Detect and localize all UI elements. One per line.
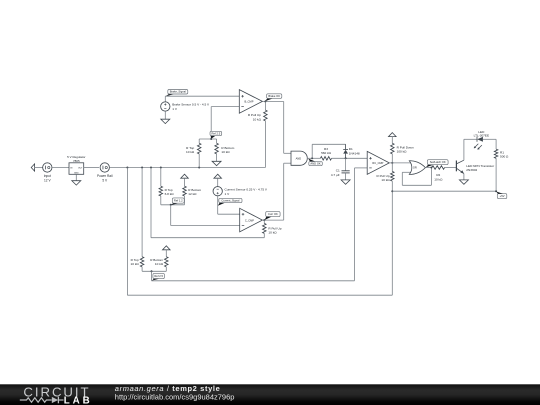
wire [164, 96, 166, 102]
wire [262, 101, 283, 103]
svg-text:6.8 kΩ: 6.8 kΩ [165, 192, 175, 196]
svg-text:10 kΩ: 10 kΩ [221, 150, 230, 154]
wire [35, 167, 43, 169]
svg-text:+5V: +5V [500, 194, 505, 198]
svg-text:LTL-307EE: LTL-307EE [474, 134, 489, 138]
wire [464, 138, 477, 140]
wire [161, 204, 185, 206]
ammeter Input 12 V [43, 163, 52, 172]
wire [165, 267, 167, 271]
svg-text:armaan.gera / temp2 style: armaan.gera / temp2 style [115, 384, 221, 393]
wire [141, 168, 143, 257]
ground [212, 161, 221, 165]
svg-text:C_CMP: C_CMP [245, 218, 254, 222]
resistor R Bottom 12k [183, 186, 187, 196]
svg-text:R Bottom: R Bottom [221, 146, 234, 150]
wire [150, 168, 152, 238]
label pointer [152, 279, 159, 281]
wire [171, 225, 240, 227]
node label Brake OK [267, 94, 282, 99]
ground [459, 180, 468, 184]
svg-text:Ref 2.5: Ref 2.5 [154, 274, 163, 278]
wire [283, 163, 285, 220]
junction [126, 167, 128, 169]
diode D1 [345, 144, 347, 149]
svg-text:12 V: 12 V [44, 178, 51, 182]
wire +5V rail to R1 [392, 190, 496, 192]
node label Brake_Signal [168, 90, 188, 95]
label pointer [496, 192, 503, 194]
svg-text:Brake_Signal: Brake_Signal [170, 90, 186, 94]
svg-text:100 kΩ: 100 kΩ [397, 150, 408, 154]
op-amp RC_CMP [367, 151, 389, 174]
svg-text:R Pull Down: R Pull Down [397, 146, 414, 150]
wire [126, 168, 128, 296]
svg-text:10 kΩ: 10 kΩ [434, 177, 443, 181]
wire [345, 173, 347, 180]
wire [84, 167, 99, 169]
resistor R Top lower [140, 257, 144, 267]
wire [401, 172, 403, 185]
node label Set/Latch OK [427, 160, 448, 165]
svg-text:Brake Sensor 0.5 V - 4.5 V: Brake Sensor 0.5 V - 4.5 V [172, 103, 210, 107]
svg-text:500 Ω: 500 Ω [500, 155, 509, 159]
resistor R Pull Up rc [391, 171, 395, 181]
wire [52, 167, 69, 169]
wire [355, 167, 368, 169]
ground [341, 180, 350, 184]
svg-text:R Pull Up: R Pull Up [377, 174, 390, 178]
svg-text:AND OK: AND OK [310, 162, 321, 166]
junction [210, 138, 212, 140]
wire [151, 271, 153, 281]
wire [184, 178, 186, 186]
svg-text:R Bottom: R Bottom [188, 188, 201, 192]
wire [218, 213, 240, 215]
wire [495, 158, 497, 191]
wire [199, 138, 216, 140]
svg-text:7805: 7805 [73, 159, 80, 163]
node label +5V [497, 194, 507, 199]
wire [483, 138, 496, 140]
junction [150, 167, 152, 169]
svg-text:R1: R1 [500, 150, 504, 154]
svg-text:Set/Latch OK: Set/Latch OK [430, 160, 446, 164]
wire [165, 250, 167, 257]
op-amp C_CMP [240, 208, 263, 232]
logo resistor squiggle and diode [20, 398, 52, 402]
wire node Ref 2.5 run [152, 280, 355, 282]
ground [72, 181, 81, 185]
wire [170, 205, 172, 226]
svg-text:1N4148: 1N4148 [349, 152, 360, 156]
transistor Q1 2N3904 [455, 161, 457, 172]
wire [216, 154, 218, 161]
svg-text:http://circuitlab.com/cs9g9u84: http://circuitlab.com/cs9g9u84z796p [115, 393, 235, 402]
ammeter Power Rail 5 V [100, 163, 109, 172]
svg-text:560 kΩ: 560 kΩ [321, 151, 332, 155]
node label Ref 1.2 [172, 198, 184, 203]
op-amp B_CMP [239, 90, 262, 114]
junction [263, 219, 265, 221]
resistor R Pull Down [391, 143, 395, 154]
svg-text:R2: R2 [436, 173, 440, 177]
wire [284, 162, 291, 164]
wire [184, 196, 186, 205]
node label Ref 2.5 [210, 131, 222, 135]
resistor R Bottom lower [165, 257, 169, 267]
svg-text:D1: D1 [349, 147, 353, 151]
resistor R Bottom upper [215, 143, 219, 154]
label pointer [308, 159, 315, 162]
junction [160, 167, 162, 169]
wire [198, 139, 200, 143]
wire [391, 154, 393, 163]
power flag +5V [214, 174, 222, 178]
wire [391, 163, 393, 172]
label pointer [265, 217, 272, 220]
wire [463, 139, 465, 160]
svg-text:R Top: R Top [131, 258, 139, 262]
resistor R Top upper [197, 143, 201, 154]
wire [263, 220, 265, 223]
wire [217, 178, 219, 186]
wire [217, 196, 219, 214]
wire [264, 102, 266, 111]
svg-text:Current_Signal: Current_Signal [221, 199, 239, 203]
label pointer [211, 136, 216, 139]
resistor R Pull Up curr [263, 223, 267, 233]
svg-text:10 kΩ: 10 kΩ [155, 262, 164, 266]
svg-text:Ref 2.5: Ref 2.5 [212, 131, 221, 135]
label pointer [426, 165, 433, 168]
svg-text:10 kΩ: 10 kΩ [268, 231, 277, 235]
wire [354, 168, 356, 281]
resistor R Top 6.8k [159, 186, 163, 196]
wire [264, 121, 266, 168]
junction [198, 167, 200, 169]
svg-text:R Top: R Top [186, 146, 194, 150]
svg-text:R Pull Up: R Pull Up [248, 113, 261, 117]
wire [332, 157, 368, 159]
svg-text:LED NPN Transistor: LED NPN Transistor [466, 164, 494, 168]
resistor R Pull Up brake [264, 110, 268, 121]
junction [151, 270, 153, 272]
wire [142, 270, 166, 272]
ground [161, 119, 170, 123]
wire [391, 137, 393, 144]
svg-text:10 kΩ: 10 kΩ [381, 178, 390, 182]
voltage regulator 7805 [69, 163, 84, 175]
junction [391, 162, 393, 164]
junction [345, 157, 347, 159]
label pointer [171, 203, 178, 205]
power flag +5V [181, 174, 189, 178]
junction [430, 167, 432, 169]
capacitor C1 [345, 158, 347, 171]
label pointer [265, 99, 273, 102]
svg-text:GND: GND [74, 172, 79, 174]
OR gate [409, 161, 425, 175]
wire [263, 233, 265, 237]
junction [170, 204, 172, 206]
wire [284, 152, 291, 154]
svg-text:R3: R3 [324, 147, 328, 151]
wire [495, 139, 497, 149]
svg-text:Curr OK: Curr OK [268, 212, 278, 216]
wire [151, 237, 264, 239]
wire [127, 294, 392, 296]
svg-text:RC_CMP: RC_CMP [372, 161, 383, 165]
svg-text:2N3904: 2N3904 [466, 168, 477, 172]
svg-text:10 kΩ: 10 kΩ [253, 117, 262, 121]
AND gate [291, 151, 307, 165]
wire [445, 167, 457, 169]
svg-text:Input: Input [44, 174, 51, 178]
resistor R1 [494, 149, 498, 158]
voltage source Brake Sensor [161, 102, 170, 111]
wire [141, 267, 143, 271]
input terminal [31, 164, 34, 171]
power flag +5V [389, 133, 397, 137]
svg-text:Ref 1.2: Ref 1.2 [174, 199, 183, 203]
node label AND OK [309, 162, 323, 166]
wire [402, 184, 431, 186]
wire [283, 102, 285, 154]
svg-text:R Top: R Top [165, 188, 173, 192]
wire [160, 196, 162, 205]
wire [210, 107, 212, 139]
node label Current_Signal [219, 198, 242, 202]
node label Ref 2.5 lower [153, 273, 165, 278]
svg-text:OUT: OUT [78, 168, 83, 170]
wire [165, 95, 239, 97]
junction [311, 157, 313, 159]
wire [198, 154, 200, 168]
wire [308, 157, 321, 159]
wire [262, 219, 283, 221]
svg-text:B_CMP: B_CMP [245, 100, 254, 104]
junction [391, 190, 393, 192]
wire [160, 168, 162, 187]
svg-text:12 kΩ: 12 kΩ [188, 192, 197, 196]
wire [389, 162, 411, 164]
resistor R3 [320, 157, 331, 161]
wire 5V rail [109, 167, 265, 169]
LED LTL-307EE [476, 137, 478, 142]
svg-text:Power Rail: Power Rail [97, 174, 113, 178]
footer bar [0, 384, 540, 405]
junction [264, 101, 266, 103]
node label Curr OK [266, 212, 280, 217]
svg-text:R Pull Up: R Pull Up [268, 226, 281, 230]
wire [425, 167, 432, 169]
svg-text:10 kΩ: 10 kΩ [186, 150, 195, 154]
svg-text:Brake OK: Brake OK [268, 94, 280, 98]
voltage source Current Sensor [213, 187, 222, 196]
wire [312, 143, 345, 145]
wire [311, 144, 313, 158]
wire [391, 191, 393, 295]
svg-text:4.7 µF: 4.7 µF [331, 173, 340, 177]
wire [216, 139, 218, 143]
wire [463, 174, 465, 180]
wire [430, 168, 432, 186]
svg-text:R Bottom: R Bottom [150, 258, 163, 262]
label pointer [165, 94, 173, 96]
svg-text:OR: OR [413, 166, 417, 170]
svg-text:C1: C1 [336, 169, 340, 173]
wire [75, 174, 77, 180]
svg-text:AND: AND [296, 156, 302, 160]
junction [141, 167, 143, 169]
junction [495, 190, 497, 192]
svg-text:10 kΩ: 10 kΩ [131, 262, 140, 266]
wire [402, 171, 411, 173]
label pointer [218, 203, 225, 206]
wire [211, 106, 239, 108]
power flag +5V [163, 246, 171, 250]
wire [391, 181, 393, 191]
svg-text:LAB: LAB [64, 395, 93, 405]
resistor R2 [432, 166, 445, 170]
svg-text:Current Sensor 0.25 V - 4.75 V: Current Sensor 0.25 V - 4.75 V [225, 187, 268, 191]
wire [164, 111, 166, 119]
